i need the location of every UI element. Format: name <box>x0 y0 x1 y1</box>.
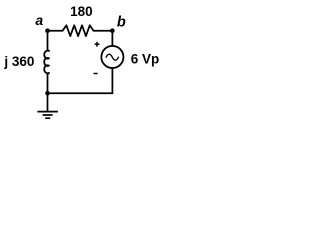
ground <box>37 93 58 118</box>
svg-text:a: a <box>35 12 43 28</box>
ground junction dot <box>45 91 50 96</box>
inductor j360 top lead <box>47 31 49 51</box>
svg-text:j 360: j 360 <box>3 54 34 69</box>
svg-text:b: b <box>117 15 126 31</box>
minus sign <box>94 73 98 75</box>
wire source - terminal down <box>111 68 113 93</box>
bottom wire <box>48 92 113 94</box>
plus sign <box>95 42 100 47</box>
svg-text:6 Vp: 6 Vp <box>131 51 160 66</box>
wire node a to resistor <box>48 30 63 32</box>
node b junction dot <box>110 28 115 33</box>
svg-text:180: 180 <box>70 4 93 19</box>
inductor j360 bottom lead <box>47 74 49 93</box>
node a junction dot <box>45 28 50 33</box>
resistor 180 <box>63 25 94 36</box>
inductor j360 coil <box>44 50 49 74</box>
AC source sine symbol <box>106 54 118 60</box>
AC source V1 circle <box>101 46 123 68</box>
wire node b down to source + terminal <box>111 31 113 47</box>
wire resistor to node b <box>94 30 113 32</box>
